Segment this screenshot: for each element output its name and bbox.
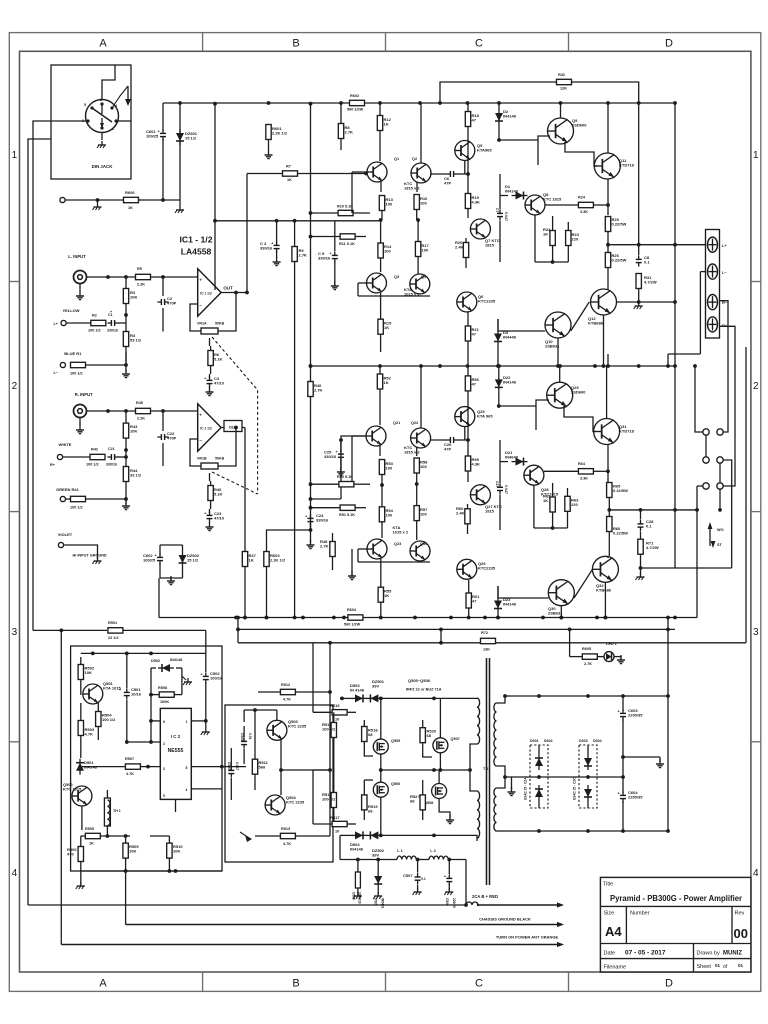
svg-text:100: 100 (422, 248, 429, 253)
wire R32 bypass loop (440, 82, 556, 103)
driver section box (225, 705, 333, 862)
resistor R61 (466, 593, 471, 608)
transistor Q5 (455, 141, 475, 161)
svg-text:2.2K: 2.2K (137, 283, 145, 287)
resistor R50 (339, 482, 354, 487)
ground R71 (640, 573, 642, 577)
resistor R15 (378, 319, 383, 334)
svg-text:C: C (475, 978, 483, 990)
resistor R22 (550, 231, 555, 246)
transistor Q9 (548, 118, 574, 144)
terminal violet (58, 542, 63, 547)
small arrow driver (245, 835, 252, 842)
svg-text:IN4148: IN4148 (503, 114, 517, 119)
svg-text:10/16: 10/16 (131, 692, 142, 697)
wire rect ground arm (623, 756, 660, 758)
svg-text:2.7K: 2.7K (314, 388, 323, 393)
svg-text:R24: R24 (578, 196, 586, 200)
svg-text:100/16: 100/16 (210, 676, 223, 681)
resistor R66 (607, 517, 612, 532)
transistor Q12 (591, 289, 617, 315)
svg-text:ESAC 25 - C2A: ESAC 25 - C2A (524, 777, 528, 800)
svg-text:Number: Number (630, 911, 650, 917)
relay contact c2 (717, 483, 723, 489)
svg-text:560: 560 (259, 765, 266, 770)
resistor R58 (414, 458, 419, 473)
junction (96, 198, 100, 202)
resistor R601 (266, 125, 271, 140)
svg-text:50KB: 50KB (215, 322, 225, 326)
svg-text:Q2: Q2 (412, 157, 417, 161)
svg-text:39V: 39V (372, 684, 379, 689)
relay contact a1 (703, 429, 709, 435)
capacitor C506 (446, 877, 452, 879)
svg-text:WO: WO (717, 528, 724, 532)
led LED1 (604, 652, 614, 662)
wire IC1b output (221, 427, 224, 429)
capacitor C4 (274, 244, 280, 246)
inductor L1 (397, 856, 416, 859)
svg-text:R. INPUT: R. INPUT (75, 392, 93, 397)
resistor R1 (71, 362, 86, 367)
svg-text:C27: C27 (495, 481, 499, 487)
relay contact b2 (717, 457, 723, 463)
wire Q5 collector bus (464, 161, 466, 174)
svg-text:0.22/5W: 0.22/5W (613, 531, 628, 536)
svg-text:D601: D601 (530, 739, 539, 743)
svg-text:R505: R505 (85, 827, 94, 831)
resistor R21 (465, 326, 470, 341)
transistor Q501 (83, 684, 103, 704)
svg-text:KTC 2235: KTC 2235 (288, 724, 307, 729)
svg-text:100 1/2: 100 1/2 (102, 717, 116, 722)
svg-text:R512: R512 (281, 683, 290, 687)
svg-text:0.22/5W: 0.22/5W (612, 222, 627, 227)
wire harness 1 left (28, 904, 466, 906)
capacitor C507 (415, 876, 421, 878)
capacitor C504 (241, 740, 247, 742)
svg-text:D: D (665, 978, 673, 990)
wire filter line (340, 859, 397, 861)
resistor R31 (636, 274, 641, 289)
wire C602 DZ602 tie (160, 544, 183, 546)
svg-text:01: 01 (715, 963, 721, 968)
junction rail DZ601 (178, 101, 182, 105)
ground DZ601 (179, 206, 181, 210)
svg-text:68: 68 (410, 799, 415, 804)
svg-text:2.4K: 2.4K (456, 511, 465, 516)
wire rect top (505, 695, 668, 697)
resistor R59 (465, 456, 470, 471)
wire IC1a feedback (190, 304, 201, 331)
svg-text:LED 1: LED 1 (606, 642, 617, 646)
potentiometer VR1B (201, 463, 218, 469)
svg-text:0.047: 0.047 (235, 762, 239, 770)
svg-text:R42: R42 (91, 448, 98, 452)
svg-text:−: − (199, 303, 202, 308)
ground C23 (209, 522, 211, 527)
junction mirror rail (379, 218, 383, 222)
svg-text:of: of (723, 964, 728, 970)
zener DZ501 (370, 694, 378, 702)
resistor R56 (465, 376, 470, 391)
wire D2601 branch (179, 103, 181, 133)
bridge D601 D602 box (530, 745, 548, 808)
transistor Q24 (410, 541, 430, 561)
svg-text:R50 5.1K: R50 5.1K (337, 475, 353, 479)
relay contact a2 (717, 429, 723, 435)
svg-text:IN4148: IN4148 (505, 189, 519, 194)
svg-text:Rev: Rev (735, 911, 745, 917)
resistor R44 (123, 467, 128, 482)
svg-text:4: 4 (115, 104, 117, 108)
svg-text:R507: R507 (125, 757, 134, 761)
terminal block box (706, 230, 720, 339)
fuse F1 (466, 902, 478, 905)
svg-text:2.7K: 2.7K (320, 544, 329, 549)
svg-text:KTD718: KTD718 (619, 429, 635, 434)
svg-text:10K: 10K (130, 429, 137, 434)
svg-text:IC 1 1/2: IC 1 1/2 (200, 291, 212, 295)
wire Q10 Q12 links (498, 319, 545, 331)
diode D502 (162, 664, 170, 672)
svg-text:KTC2235: KTC2235 (478, 566, 496, 571)
resistor R519 (362, 795, 367, 810)
op-amp IC1a (198, 269, 221, 316)
svg-text:4.7K: 4.7K (85, 732, 94, 737)
relay contact c1 (703, 483, 709, 489)
diode D504 (355, 831, 363, 839)
wire mid link (381, 769, 460, 771)
svg-text:Q507: Q507 (451, 737, 460, 741)
out box IC1b (224, 421, 242, 432)
svg-text:2.2K 1/2: 2.2K 1/2 (270, 558, 286, 563)
wire osc box bottom (81, 870, 222, 872)
svg-text:0.01: 0.01 (248, 733, 252, 740)
svg-text:C504: C504 (240, 733, 244, 741)
resistor R508 (159, 692, 174, 697)
svg-text:1: 1 (12, 150, 18, 161)
wire primary bottom (460, 835, 477, 838)
resistor R2 (91, 320, 106, 325)
wire box to left bus B (28, 139, 51, 905)
svg-text:Q22: Q22 (411, 421, 418, 425)
svg-text:Drawn by: Drawn by (697, 951, 720, 957)
svg-text:D: D (665, 38, 673, 50)
transistor Q23 (367, 539, 387, 559)
svg-text:2.4K: 2.4K (455, 245, 464, 250)
svg-text:2.7K: 2.7K (345, 130, 354, 135)
resistor R11 (340, 234, 355, 239)
svg-text:4: 4 (186, 788, 188, 792)
wire lower bus 3 (238, 642, 746, 644)
svg-text:2SD600: 2SD600 (572, 123, 587, 128)
svg-text:R5: R5 (137, 267, 142, 271)
oscillator section box (71, 646, 222, 871)
transistor Q503 (267, 720, 287, 740)
svg-text:330/16: 330/16 (318, 256, 331, 261)
resistor R55 (378, 587, 383, 602)
resistor R62 (550, 497, 555, 512)
svg-text:L−: L− (53, 371, 58, 375)
wire Q1 Q2 emitters (380, 181, 382, 192)
svg-text:3.3K: 3.3K (580, 477, 588, 481)
svg-text:D502: D502 (151, 659, 160, 663)
svg-text:+: + (199, 412, 202, 417)
ground C3 (209, 387, 211, 392)
wire IC2 pin8 right (191, 766, 222, 768)
wire R output node (609, 509, 697, 511)
svg-text:R51 5.1K: R51 5.1K (339, 513, 355, 517)
svg-text:4: 4 (12, 868, 18, 879)
svg-text:0.1: 0.1 (646, 524, 652, 529)
svg-text:1: 1 (186, 720, 188, 724)
resistor R45 (136, 408, 151, 413)
mosfet Q508 (432, 784, 447, 799)
svg-text:3: 3 (753, 627, 759, 638)
svg-text:A: A (99, 38, 107, 50)
ground C4 (276, 257, 278, 262)
resistor R18 (465, 112, 470, 127)
resistor R7 (283, 171, 298, 176)
resistor R46 (208, 486, 213, 501)
wire box bottom stub (101, 133, 103, 141)
capacitor C502 (203, 675, 209, 677)
ground LED1 (620, 655, 622, 660)
resistor R511 (252, 759, 257, 774)
svg-text:Q3: Q3 (394, 275, 399, 279)
svg-text:KTC 1815: KTC 1815 (63, 787, 82, 792)
svg-text:1K: 1K (384, 380, 389, 385)
wo st arrows (709, 524, 711, 546)
bridge D603 D604 box (579, 745, 597, 808)
wire violet to ground (64, 545, 98, 559)
svg-text:330/16: 330/16 (107, 329, 118, 333)
svg-text:IN5401: IN5401 (381, 898, 385, 909)
svg-text:2.7K: 2.7K (299, 253, 308, 258)
thermistor TH1 (104, 798, 110, 826)
junction R44 top (124, 448, 128, 452)
svg-text:Pyramid - PB300G - Power Ampli: Pyramid - PB300G - Power Amplifier (610, 894, 742, 903)
dashed gang link VR1A (212, 337, 258, 494)
secondary winding upper (494, 703, 497, 766)
wire IC1a output (221, 292, 247, 294)
svg-text:R606: R606 (125, 190, 135, 195)
svg-text:DIN JACK: DIN JACK (92, 164, 114, 169)
resistor R521 (420, 795, 425, 810)
ground R506 (80, 882, 82, 886)
resistor R72 in bus (481, 638, 496, 643)
svg-text:VIOLET: VIOLET (58, 532, 73, 537)
resistor R516 (332, 710, 347, 715)
svg-text:10: 10 (335, 718, 339, 722)
svg-text:100 1/2: 100 1/2 (322, 727, 336, 732)
svg-text:2.7K: 2.7K (584, 662, 592, 666)
wire Q11 emitter chain (607, 179, 609, 215)
terminal hi input (60, 197, 65, 202)
svg-text:KTA965: KTA965 (477, 148, 492, 153)
arrow to ground A1 (127, 86, 129, 100)
wire Q3 Q4 bases (358, 282, 367, 284)
svg-text:L−: L− (722, 270, 727, 275)
svg-text:10K: 10K (173, 849, 180, 854)
transistor Q31 (594, 419, 620, 445)
capacitor C25 (338, 453, 344, 455)
svg-text:47P: 47P (444, 447, 451, 452)
junction dots L input (106, 275, 110, 279)
resistor R41 (71, 496, 86, 501)
svg-text:07 - 05 - 2017: 07 - 05 - 2017 (625, 950, 666, 957)
resistor R604 in bus (348, 615, 363, 620)
diode D603 (584, 758, 592, 766)
wire Q503 collector (276, 710, 278, 720)
capacitor C601 (160, 132, 166, 134)
capacitor C27 (497, 486, 503, 488)
svg-text:5: 5 (163, 794, 165, 798)
terminal L- blue (60, 362, 65, 367)
svg-text:BLUE R1: BLUE R1 (64, 351, 82, 356)
svg-text:R+: R+ (722, 323, 728, 328)
wire relay links (705, 435, 707, 457)
wire diff pair collectors (420, 103, 422, 163)
wire R- feed (720, 301, 729, 432)
resistor R509 (123, 843, 128, 858)
svg-text:R2: R2 (92, 314, 97, 318)
svg-text:2CA B + RED: 2CA B + RED (472, 894, 498, 899)
svg-text:L. INPUT: L. INPUT (68, 254, 86, 259)
svg-text:100 1/2: 100 1/2 (322, 797, 336, 802)
resistor R20 (463, 243, 468, 258)
wire R+ feed (720, 326, 736, 486)
capacitor C505 (355, 872, 360, 888)
wire jack left to bus x33 (33, 121, 88, 630)
capacitor C602 (157, 556, 163, 558)
svg-text:Q23: Q23 (394, 542, 401, 546)
svg-text:Title: Title (603, 882, 613, 888)
junction C601 node (161, 198, 165, 202)
wire pin4 routing (112, 86, 128, 108)
svg-text:C7: C7 (495, 208, 499, 212)
wire C8 R31 branch (638, 103, 640, 255)
capacitor C604 (620, 794, 626, 796)
diode D22 (495, 379, 503, 387)
resistor R514 (331, 723, 336, 738)
wire smps left feeds (312, 643, 314, 713)
svg-text:0.22/5W: 0.22/5W (613, 488, 628, 493)
resistor R504 (96, 712, 101, 727)
wire Q30 Q32 links (498, 586, 549, 598)
svg-text:R602: R602 (350, 94, 359, 98)
svg-text:100: 100 (420, 464, 427, 469)
svg-text:KTC2235: KTC2235 (478, 299, 496, 304)
wire pin2 to top (102, 65, 115, 100)
transistor Q22 (411, 428, 431, 448)
capacitor C26 (449, 437, 451, 443)
resistor R3 (123, 289, 128, 304)
resistor R505 (85, 833, 100, 838)
resistor R503 (78, 721, 83, 736)
zener DZ602 (179, 555, 187, 563)
resistor R57 (414, 506, 419, 521)
resistor R512 (280, 689, 295, 694)
svg-text:47: 47 (472, 332, 477, 337)
resistor R53 (379, 460, 384, 475)
svg-text:68: 68 (368, 809, 373, 814)
resistor R513 (280, 833, 295, 838)
ground R31 (638, 302, 640, 306)
resistor R32 (557, 79, 572, 84)
svg-text:47: 47 (472, 118, 477, 123)
resistor R25 (605, 217, 610, 232)
svg-text:6: 6 (163, 720, 165, 724)
svg-text:IN4148: IN4148 (503, 602, 517, 607)
secondary center tap (497, 766, 506, 788)
transistor Q502 (72, 786, 92, 806)
svg-text:4.7K: 4.7K (126, 772, 134, 776)
svg-text:L+: L+ (722, 243, 727, 248)
wire right dc bus (667, 618, 669, 832)
rca jack R input (74, 405, 87, 418)
diode D1 (516, 192, 524, 200)
transistor Q3 (367, 273, 387, 293)
svg-text:100: 100 (386, 466, 393, 471)
svg-text:ST: ST (717, 543, 723, 547)
resistor R51 (340, 505, 355, 510)
capacitor C5 (332, 254, 338, 256)
junction dots mid rail (309, 364, 313, 368)
transistor Q26 (457, 559, 477, 579)
svg-text:1: 1 (112, 127, 114, 131)
wire Q29 collector (559, 366, 561, 382)
transistor Q28 (524, 465, 544, 485)
svg-text:2SD600: 2SD600 (571, 390, 586, 395)
diode D21 (516, 458, 524, 466)
svg-text:1K: 1K (384, 593, 389, 598)
svg-text:1K: 1K (384, 122, 389, 127)
junction lower mirror (380, 483, 384, 487)
transistor Q2 (411, 163, 431, 183)
diode D601 (535, 758, 543, 766)
svg-text:100 1/2: 100 1/2 (86, 463, 99, 467)
svg-text:4.7K: 4.7K (283, 698, 291, 702)
resistor R10 (338, 210, 353, 215)
wire C5 node (334, 221, 336, 251)
svg-text:0.047: 0.047 (504, 212, 508, 221)
resistor R501 (108, 628, 123, 633)
screw terminal R+ (708, 317, 718, 332)
rca jack L input (74, 271, 87, 284)
resistor R8 (338, 124, 343, 139)
wire Q25 collector bus (464, 427, 466, 440)
svg-text:100K: 100K (160, 700, 169, 704)
svg-text:R+: R+ (50, 463, 56, 467)
svg-text:Size: Size (604, 911, 615, 917)
svg-text:R605: R605 (582, 647, 591, 651)
junction dots R input (106, 409, 110, 413)
screw terminal R- (708, 295, 718, 310)
svg-text:4.7/2W: 4.7/2W (646, 545, 659, 550)
svg-text:12K: 12K (560, 87, 567, 91)
wire lower bus 1 (159, 617, 697, 619)
wire harness 2 (125, 871, 127, 925)
arrow harness 1 (478, 904, 562, 906)
dashed gang link VR1B (212, 472, 258, 494)
svg-text:1815 x 2: 1815 x 2 (404, 450, 420, 455)
resistor R60 (465, 509, 470, 524)
resistor R12 (377, 116, 382, 131)
svg-text:IN4148: IN4148 (84, 765, 98, 770)
svg-text:8: 8 (186, 766, 188, 770)
